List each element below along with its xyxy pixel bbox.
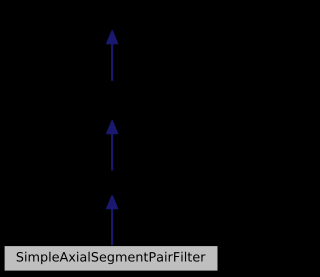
inheritance arrow 1 (top) : arrowhead [106,30,119,44]
inheritance arrow 2 : shaft [111,134,113,171]
inheritance arrow 1 : shaft [111,44,113,81]
inheritance arrow 2 (middle) : arrowhead [106,120,119,134]
inheritance arrow 3 : shaft [111,209,113,246]
node label text [17,252,206,264]
inheritance arrow 3 (bottom) : arrowhead [106,195,119,209]
node box: SimpleAxialSegmentPairFilter (border) [4,246,218,271]
node box: SimpleAxialSegmentPairFilter (grey fill) [5,246,218,271]
